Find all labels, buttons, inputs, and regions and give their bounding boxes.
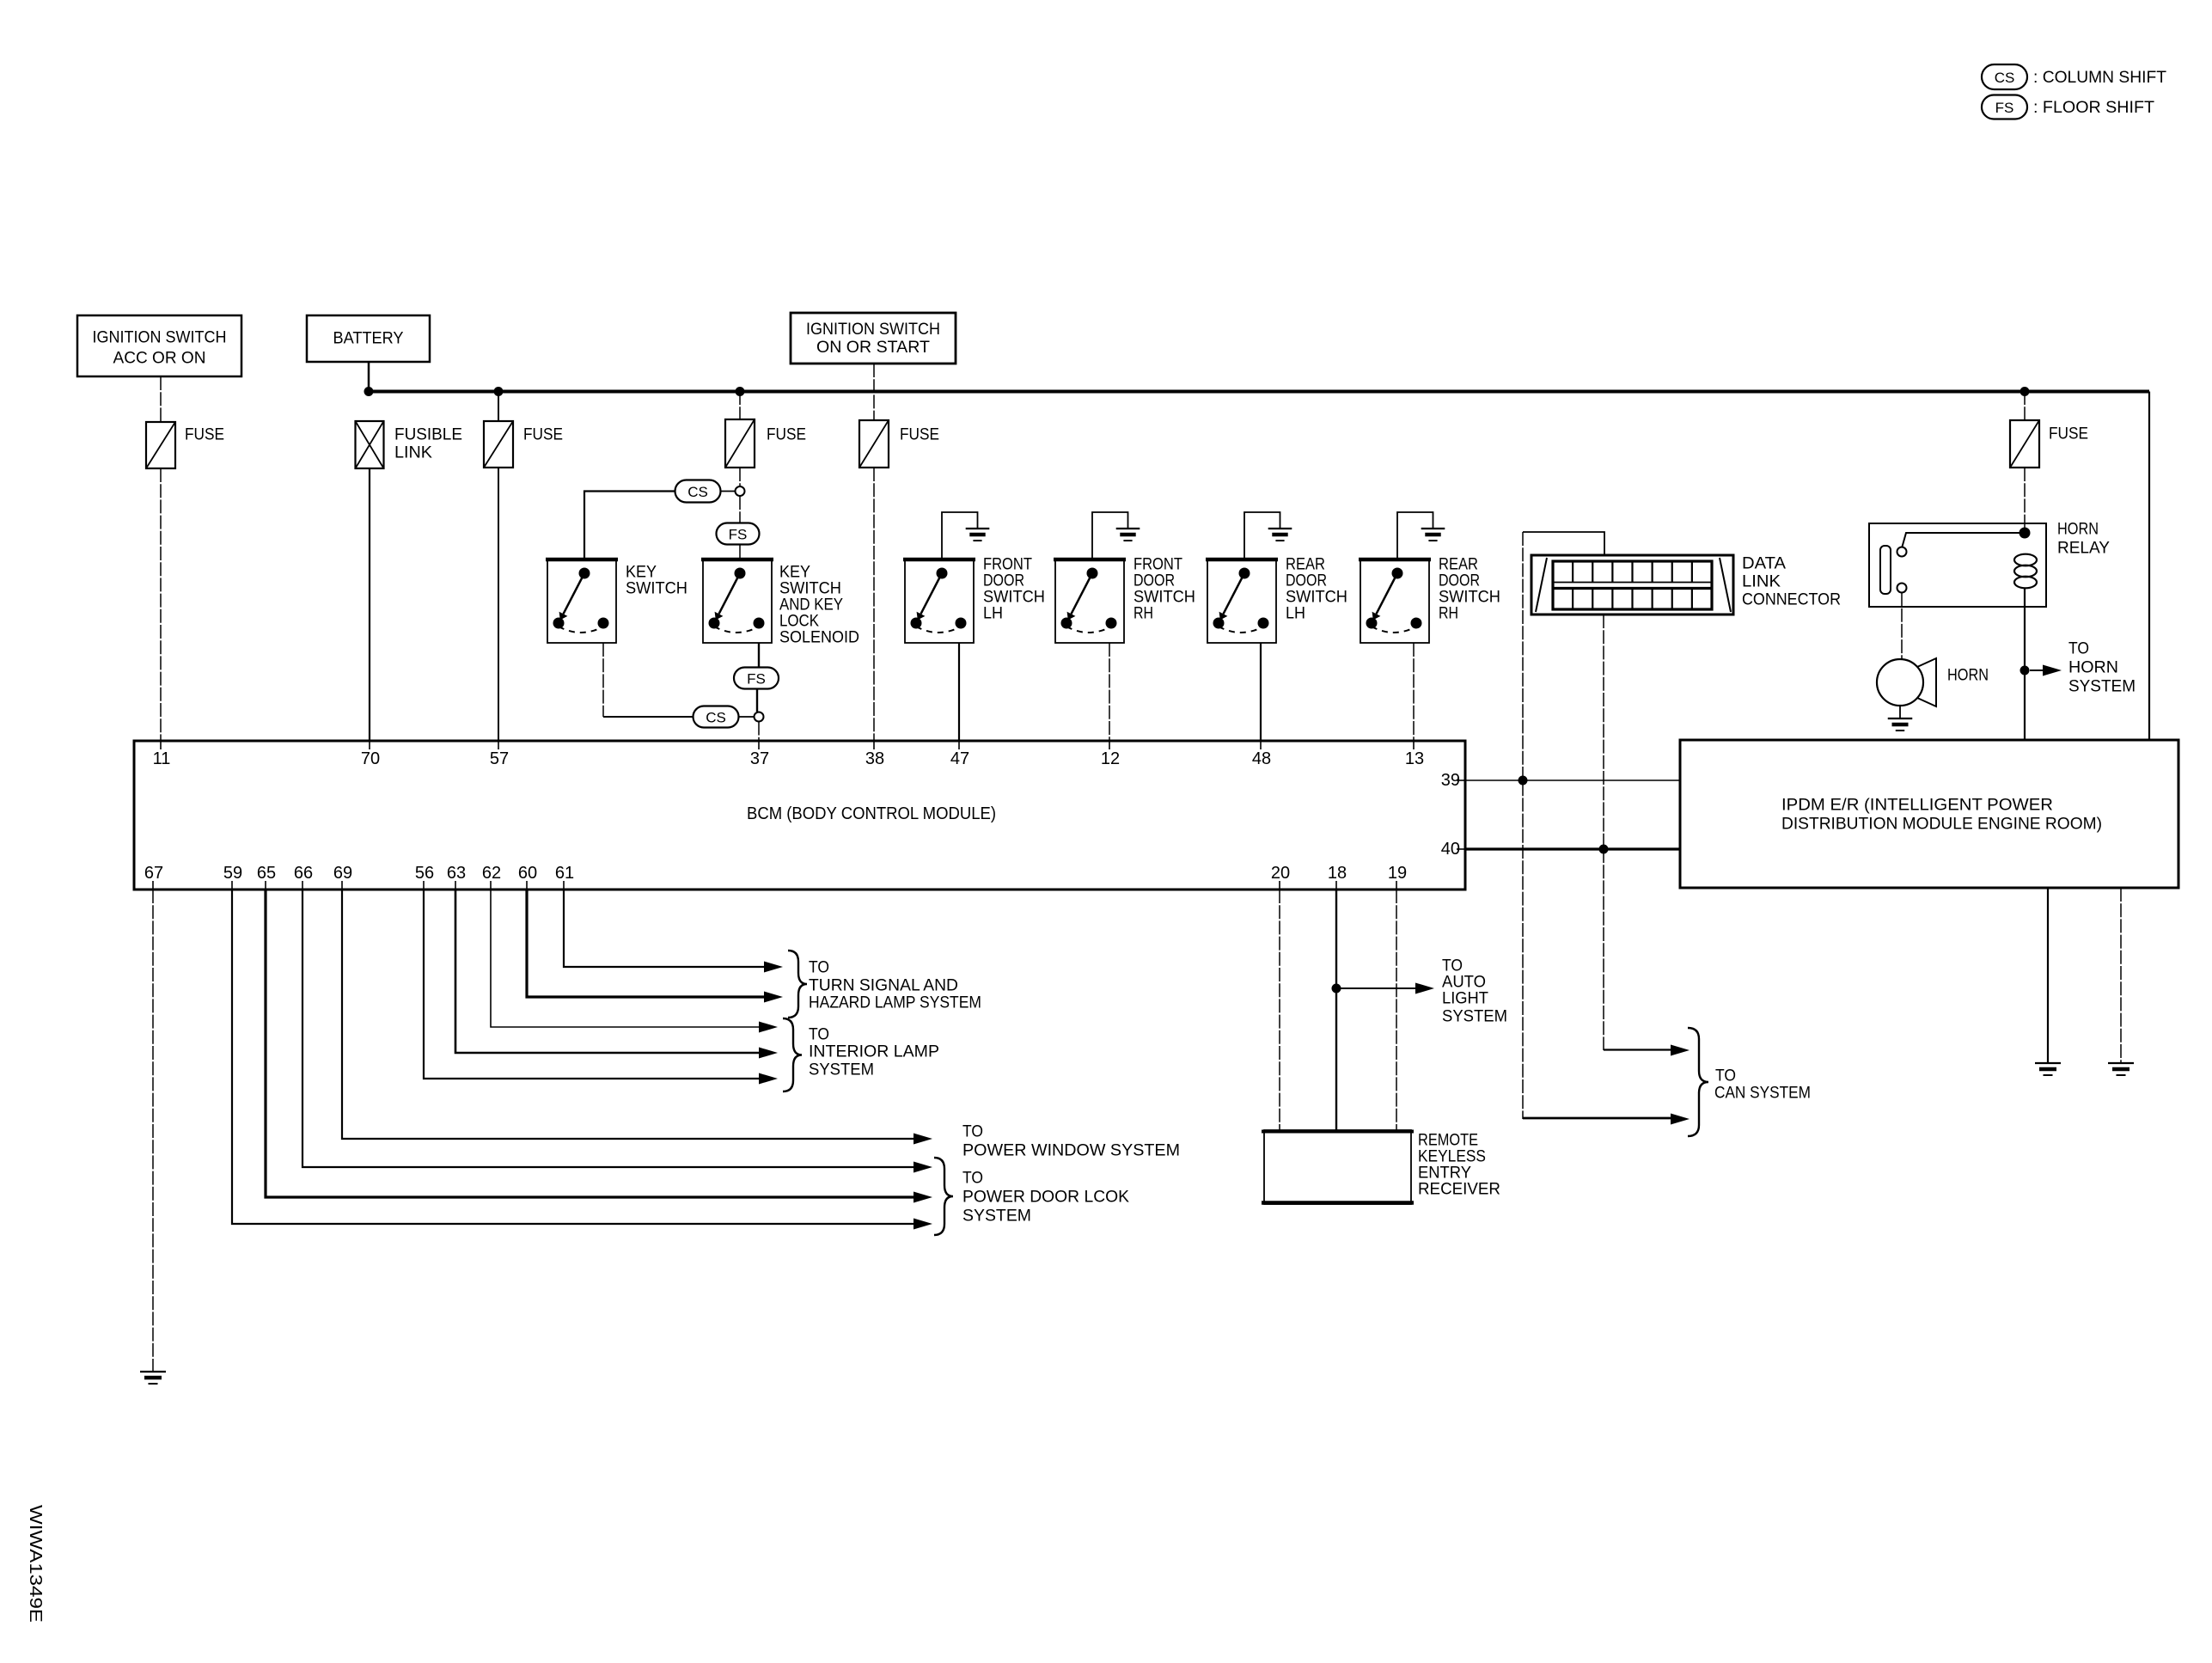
label TO TURN SIGNAL AND HAZARD LAMP SYSTEM <box>809 959 981 1012</box>
svg-text:IPDM E/R (INTELLIGENT POWER: IPDM E/R (INTELLIGENT POWER <box>1781 797 2053 815</box>
svg-text:SYSTEM: SYSTEM <box>809 1061 874 1079</box>
CS pill upper <box>675 480 721 503</box>
label REAR DOOR SWITCH LH <box>1286 556 1347 623</box>
junction DLC/BCM39 wire <box>1518 776 1528 786</box>
wire bus to fuse37 <box>739 391 741 419</box>
wire key-switch to CS pill lower <box>603 643 693 717</box>
svg-text:HAZARD LAMP SYSTEM: HAZARD LAMP SYSTEM <box>809 994 981 1012</box>
junction bus/horn-fuse <box>2020 387 2030 396</box>
svg-text:REAR: REAR <box>1286 556 1325 574</box>
svg-text:: FLOOR SHIFT: : FLOOR SHIFT <box>2033 99 2154 117</box>
BCM top pin 48 <box>1252 741 1271 768</box>
svg-text:62: 62 <box>482 864 501 883</box>
wire CAN-L from DLC jog down to CAN arrow <box>1523 532 1674 1119</box>
fusible link <box>356 421 384 468</box>
brace power-door-lock group <box>934 1158 953 1235</box>
svg-text:ENTRY: ENTRY <box>1418 1165 1471 1183</box>
horn <box>1877 658 1936 706</box>
svg-text:SWITCH: SWITCH <box>1286 589 1347 607</box>
label TO POWER WINDOW SYSTEM <box>962 1123 1180 1160</box>
BCM bottom pin 66 <box>294 864 313 890</box>
wire horn fuse to relay <box>2024 468 2026 533</box>
wire CS pill to key switch <box>584 492 675 560</box>
BCM top pin 37 <box>750 741 769 768</box>
arrow to auto light system <box>1341 987 1419 989</box>
svg-text:FUSE: FUSE <box>523 426 563 444</box>
label TO HORN SYSTEM <box>2068 640 2136 696</box>
wire CAN-H from DLC bottom down to CAN arrow <box>1604 614 1674 1050</box>
svg-text:57: 57 <box>490 749 509 768</box>
arrowhead CAN lower <box>1671 1114 1690 1125</box>
BCM right pin 39 <box>1441 771 1465 790</box>
svg-text:INTERIOR LAMP: INTERIOR LAMP <box>809 1043 939 1061</box>
svg-text:WIWA1349E: WIWA1349E <box>26 1505 45 1623</box>
BCM top pin 38 <box>865 741 884 768</box>
brace interior-lamp group <box>783 1018 802 1091</box>
CS pill lower <box>694 706 739 728</box>
wire fuse38 to BCM pin 38 <box>873 468 875 741</box>
svg-text:: COLUMN SHIFT: : COLUMN SHIFT <box>2033 69 2166 87</box>
svg-text:AND KEY: AND KEY <box>779 596 843 614</box>
label KEY SWITCH <box>626 564 687 598</box>
fuse F-11 <box>146 422 175 468</box>
svg-text:BCM (BODY CONTROL MODULE): BCM (BODY CONTROL MODULE) <box>747 804 996 823</box>
svg-text:20: 20 <box>1271 864 1290 883</box>
svg-text:KEYLESS: KEYLESS <box>1418 1148 1486 1166</box>
wire BCM pin 59 output arrow <box>232 890 932 1230</box>
IPDM E/R box <box>1680 740 2178 888</box>
svg-text:LH: LH <box>983 605 1003 623</box>
wire BCM pin 65 output arrow <box>266 890 932 1203</box>
wire REAR door switch LH to BCM <box>1260 643 1262 741</box>
svg-text:37: 37 <box>750 749 769 768</box>
arrowhead CAN upper <box>1671 1045 1690 1056</box>
wire CS pill to node circle <box>721 491 736 492</box>
svg-text:CS: CS <box>1995 70 2015 86</box>
svg-text:TO: TO <box>1442 957 1463 975</box>
svg-text:IGNITION SWITCH: IGNITION SWITCH <box>93 329 227 347</box>
wire BCM pin 67 to ground <box>152 890 154 1371</box>
svg-text:FRONT: FRONT <box>1133 556 1182 574</box>
fuse F-37 <box>725 419 755 468</box>
wire FRONT door switch LH to BCM <box>958 643 960 741</box>
arrow to horn system <box>2030 669 2046 671</box>
BCM top pin 70 <box>361 741 380 768</box>
svg-text:TO: TO <box>962 1123 983 1141</box>
FS pill upper <box>717 523 760 545</box>
wire IPDM ground right <box>2120 888 2122 1062</box>
BCM (Body Control Module) box <box>134 741 1465 890</box>
wire fuse37 to node circle <box>739 468 741 486</box>
node circle below fuse37 <box>736 486 745 496</box>
svg-text:ACC OR ON: ACC OR ON <box>113 350 206 368</box>
wire FRONT door switch RH to BCM <box>1109 643 1110 741</box>
wire bus to fuse57 <box>498 391 499 421</box>
svg-text:SOLENOID: SOLENOID <box>779 629 859 647</box>
svg-text:FS: FS <box>1995 100 2014 116</box>
svg-text:SWITCH: SWITCH <box>779 580 841 598</box>
BCM top pin 47 <box>950 741 969 768</box>
svg-text:POWER DOOR LCOK: POWER DOOR LCOK <box>962 1189 1129 1207</box>
svg-text:BATTERY: BATTERY <box>333 330 404 348</box>
label FUSIBLE LINK <box>394 426 462 462</box>
svg-text:RH: RH <box>1133 605 1153 623</box>
REAR door switch RH box <box>1359 559 1431 643</box>
svg-text:12: 12 <box>1101 749 1120 768</box>
svg-text:DOOR: DOOR <box>1133 572 1175 590</box>
BCM bottom pin 67 <box>144 864 163 890</box>
svg-text:FUSE: FUSE <box>900 426 939 444</box>
BCM bottom pin 60 <box>518 864 537 890</box>
BCM bottom pin 18 <box>1328 864 1347 890</box>
svg-text:13: 13 <box>1405 749 1424 768</box>
wire DLC top pin jog <box>1523 532 1604 555</box>
wire IPDM ground left <box>2047 888 2049 1062</box>
junction bus/fuse57 <box>494 387 504 396</box>
svg-text:SWITCH: SWITCH <box>983 589 1045 607</box>
svg-text:LINK: LINK <box>1742 573 1781 591</box>
wire BCM 39 to IPDM <box>1465 780 1680 781</box>
fuse horn <box>2010 420 2039 468</box>
svg-text:LIGHT: LIGHT <box>1442 990 1488 1008</box>
junction DLC/BCM40 wire <box>1599 845 1609 854</box>
label REMOTE KEYLESS ENTRY RECEIVER <box>1418 1132 1500 1199</box>
wire BCM pin 19 to receiver <box>1396 890 1397 1130</box>
BCM bottom pin 59 <box>223 864 242 890</box>
svg-text:FUSIBLE: FUSIBLE <box>394 426 462 444</box>
label TO POWER DOOR LCOK SYSTEM <box>962 1170 1129 1226</box>
ground REAR door switch LH <box>1244 512 1292 559</box>
BCM bottom pin 20 <box>1271 864 1290 890</box>
svg-text:LH: LH <box>1286 605 1305 623</box>
svg-text:DATA: DATA <box>1742 555 1786 573</box>
svg-text:60: 60 <box>518 864 537 883</box>
wire BCM 40 to IPDM <box>1465 847 1680 850</box>
label HORN RELAY <box>2057 521 2110 558</box>
data link connector body <box>1531 555 1733 614</box>
key switch box <box>546 559 618 643</box>
BCM bottom pin 62 <box>482 864 501 890</box>
svg-text:FS: FS <box>729 527 748 543</box>
svg-text:LINK: LINK <box>394 444 432 462</box>
key switch and key lock solenoid box <box>701 559 773 643</box>
svg-text:59: 59 <box>223 864 242 883</box>
bus right drop wire to IPDM <box>2148 392 2150 741</box>
wire REAR door switch RH to BCM <box>1413 643 1415 741</box>
svg-text:66: 66 <box>294 864 313 883</box>
wire CS pill lower to node circle <box>739 716 755 718</box>
BCM bottom pin 63 <box>447 864 466 890</box>
wire BCM pin 60 output arrow <box>527 890 783 1003</box>
svg-text:SWITCH: SWITCH <box>626 580 687 598</box>
ground FRONT door switch RH <box>1092 512 1140 559</box>
label DATA LINK CONNECTOR <box>1742 555 1841 609</box>
junction auto-light takeoff <box>1332 984 1341 994</box>
svg-text:SYSTEM: SYSTEM <box>962 1208 1031 1226</box>
svg-text:19: 19 <box>1388 864 1407 883</box>
BCM bottom pin 65 <box>257 864 276 890</box>
svg-text:11: 11 <box>153 749 171 768</box>
FS pill lower <box>734 668 779 689</box>
wire BCM pin 61 output arrow <box>564 890 783 973</box>
svg-text:RELAY: RELAY <box>2057 540 2110 558</box>
svg-text:FUSE: FUSE <box>2049 425 2088 443</box>
svg-text:DOOR: DOOR <box>983 572 1024 590</box>
svg-text:TO: TO <box>962 1170 983 1188</box>
junction to-horn-system <box>2020 666 2030 676</box>
label FRONT DOOR SWITCH RH <box>1133 556 1195 623</box>
legend CS pill : COLUMN SHIFT <box>1982 64 2027 89</box>
svg-text:IGNITION SWITCH: IGNITION SWITCH <box>806 321 940 339</box>
svg-text:DOOR: DOOR <box>1439 572 1480 590</box>
label IPDM E/R <box>1781 797 2102 834</box>
label TO AUTO LIGHT SYSTEM <box>1442 957 1507 1026</box>
ground horn <box>1888 718 1913 731</box>
label FRONT DOOR SWITCH LH <box>983 556 1045 623</box>
junction battery/bus <box>364 387 374 396</box>
svg-text:TO: TO <box>809 959 829 977</box>
svg-text:SWITCH: SWITCH <box>1439 589 1500 607</box>
wire horn to ground <box>1899 706 1901 718</box>
svg-text:SWITCH: SWITCH <box>1133 589 1195 607</box>
svg-text:CAN SYSTEM: CAN SYSTEM <box>1714 1085 1811 1103</box>
wire fuse11 to BCM pin 11 <box>160 468 162 741</box>
svg-text:TO: TO <box>2068 640 2089 658</box>
BCM bottom pin 69 <box>333 864 352 890</box>
BCM bottom pin 56 <box>415 864 434 890</box>
svg-text:FS: FS <box>747 671 766 688</box>
wire relay coil to IPDM <box>2024 588 2026 740</box>
wire node circle to BCM pin 37 <box>758 722 760 742</box>
BCM bottom pin 61 <box>555 864 574 890</box>
ground IPDM right <box>2108 1063 2134 1075</box>
wire relay contact to horn <box>1901 593 1903 660</box>
wire BCM pin 20 to receiver <box>1279 890 1280 1130</box>
svg-text:KEY: KEY <box>626 564 657 582</box>
svg-text:CS: CS <box>706 710 726 726</box>
label KEY SWITCH AND KEY LOCK SOLENOID <box>779 564 859 647</box>
svg-text:67: 67 <box>144 864 163 883</box>
BCM bottom pin 19 <box>1388 864 1407 890</box>
svg-text:18: 18 <box>1328 864 1347 883</box>
svg-text:70: 70 <box>361 749 380 768</box>
fuse F-57 <box>484 421 513 468</box>
horn relay box <box>1869 523 2046 607</box>
ignition switch ON-or-START box <box>791 313 956 364</box>
svg-text:69: 69 <box>333 864 352 883</box>
wire bus to horn fuse <box>2024 391 2026 420</box>
svg-text:AUTO: AUTO <box>1442 974 1486 992</box>
remote keyless entry receiver box <box>1262 1130 1414 1204</box>
svg-text:SYSTEM: SYSTEM <box>2068 678 2136 696</box>
svg-text:40: 40 <box>1441 840 1460 859</box>
wire ign-ON to fuse38 <box>873 364 875 420</box>
ground REAR door switch RH <box>1397 512 1445 559</box>
svg-text:56: 56 <box>415 864 434 883</box>
wire fusible-link to BCM pin 70 <box>369 468 370 741</box>
wire BCM pin 62 output arrow <box>491 890 778 1033</box>
FRONT door switch LH box <box>903 559 975 643</box>
wire BCM pin 18 to receiver <box>1335 890 1337 1130</box>
BCM top pin 57 <box>490 741 509 768</box>
svg-text:47: 47 <box>950 749 969 768</box>
svg-text:DOOR: DOOR <box>1286 572 1327 590</box>
wire node circle to FS pill to key-lock switch <box>739 496 741 559</box>
svg-text:HORN: HORN <box>2057 521 2099 539</box>
BCM top pin 12 <box>1101 741 1120 768</box>
fuse F-38 <box>859 420 889 468</box>
svg-text:CS: CS <box>687 484 708 500</box>
svg-text:TO: TO <box>809 1026 829 1044</box>
svg-text:TO: TO <box>1715 1067 1736 1085</box>
svg-text:TURN SIGNAL AND: TURN SIGNAL AND <box>809 977 958 995</box>
power bus wire <box>367 390 2149 394</box>
legend FS pill : FLOOR SHIFT <box>1982 95 2027 119</box>
ground pin 67 <box>140 1372 166 1384</box>
svg-text:FUSE: FUSE <box>767 426 806 444</box>
svg-text:61: 61 <box>555 864 574 883</box>
svg-text:FRONT: FRONT <box>983 556 1032 574</box>
svg-text:HORN: HORN <box>1947 667 1989 685</box>
svg-text:REAR: REAR <box>1439 556 1478 574</box>
BCM top pin 13 <box>1405 741 1424 768</box>
wire key-lock switch to FS pill to node circle <box>757 643 759 712</box>
wire BCM pin 66 output arrow <box>302 890 932 1173</box>
ground IPDM left <box>2035 1063 2061 1075</box>
label REAR DOOR SWITCH RH <box>1439 556 1500 623</box>
REAR door switch LH box <box>1206 559 1278 643</box>
svg-text:POWER WINDOW SYSTEM: POWER WINDOW SYSTEM <box>962 1142 1180 1160</box>
svg-text:FUSE: FUSE <box>185 426 224 444</box>
ground FRONT door switch LH <box>942 512 989 559</box>
svg-text:SYSTEM: SYSTEM <box>1442 1008 1507 1026</box>
wire battery to bus <box>368 362 370 392</box>
wire BCM pin 56 output arrow <box>424 890 778 1085</box>
svg-text:ON OR START: ON OR START <box>816 339 930 357</box>
battery box <box>307 315 430 362</box>
wire fuse57 to BCM pin 57 <box>498 468 499 741</box>
svg-text:LOCK: LOCK <box>779 613 819 631</box>
label TO INTERIOR LAMP SYSTEM <box>809 1026 939 1079</box>
node circle above BCM pin 37 <box>755 712 764 722</box>
brace CAN system group <box>1688 1028 1708 1136</box>
ignition switch ACC-or-ON box <box>77 315 241 376</box>
svg-text:38: 38 <box>865 749 884 768</box>
svg-text:65: 65 <box>257 864 276 883</box>
svg-text:63: 63 <box>447 864 466 883</box>
junction bus/fuse37 <box>736 387 745 396</box>
FRONT door switch RH box <box>1054 559 1126 643</box>
svg-text:39: 39 <box>1441 771 1460 790</box>
svg-text:KEY: KEY <box>779 564 810 582</box>
brace turn-signal group <box>788 951 807 1018</box>
BCM right pin 40 <box>1441 840 1465 859</box>
svg-text:RECEIVER: RECEIVER <box>1418 1181 1500 1199</box>
svg-text:RH: RH <box>1439 605 1458 623</box>
svg-text:REMOTE: REMOTE <box>1418 1132 1478 1150</box>
svg-text:HORN: HORN <box>2068 659 2118 677</box>
svg-text:48: 48 <box>1252 749 1271 768</box>
label TO CAN SYSTEM <box>1714 1067 1811 1103</box>
wire BCM pin 69 output arrow <box>342 890 932 1145</box>
wire ign-ACC to fuse11 <box>160 376 162 422</box>
svg-text:CONNECTOR: CONNECTOR <box>1742 591 1841 609</box>
wire BCM pin 63 output arrow <box>455 890 778 1059</box>
svg-text:DISTRIBUTION MODULE ENGINE ROO: DISTRIBUTION MODULE ENGINE ROOM) <box>1781 816 2102 834</box>
BCM top pin 11 <box>153 741 171 768</box>
